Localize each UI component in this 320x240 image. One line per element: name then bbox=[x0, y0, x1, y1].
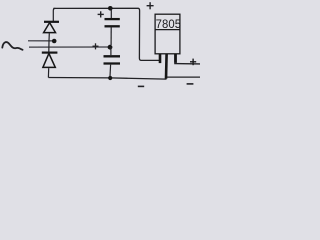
label: + polarity of C2 bbox=[93, 43, 99, 49]
label: - terminal (left) bbox=[138, 85, 144, 87]
node B: top junction dot bbox=[108, 6, 113, 11]
label: - terminal (right) bbox=[187, 83, 194, 85]
label: + output terminal bbox=[190, 59, 196, 66]
wire: top rail bbox=[53, 7, 138, 9]
AC source V1 (~) bbox=[2, 42, 22, 50]
node A: junction dot between diodes bbox=[52, 39, 57, 44]
wire: node A down to D2 cathode bbox=[48, 41, 50, 52]
wire: vertical from top rail down to D1 cathode bbox=[53, 8, 55, 21]
svg-text:7805: 7805 bbox=[156, 17, 182, 31]
regulator U1 7805 body bbox=[155, 14, 180, 54]
capacitor C1 (top) bbox=[105, 8, 120, 45]
wire: lower AC lead to capacitor midpoint bbox=[29, 46, 110, 48]
background bbox=[0, 0, 200, 95]
pin 2 (ground, middle) bbox=[165, 54, 168, 79]
node C: middle junction dot bbox=[108, 45, 113, 50]
label: + on input rail bbox=[147, 2, 154, 9]
wire: output to + terminal bbox=[174, 63, 200, 65]
wire: top rail corner drop to regulator input bbox=[138, 8, 160, 60]
node D: bottom junction dot bbox=[108, 76, 112, 80]
wire: bottom rail (right section to edge) bbox=[167, 76, 200, 78]
pin 3 (output, right) bbox=[174, 54, 177, 63]
diode D2 (bottom) bbox=[42, 53, 58, 78]
wire: bottom rail (left section) bbox=[48, 78, 166, 80]
capacitor C2 (bottom) bbox=[104, 47, 121, 77]
pin 1 (input, left) bbox=[159, 54, 162, 63]
label: + polarity of C1 bbox=[98, 11, 104, 17]
diode D1 (top) bbox=[44, 22, 59, 41]
wire: upper AC lead bbox=[28, 40, 56, 42]
